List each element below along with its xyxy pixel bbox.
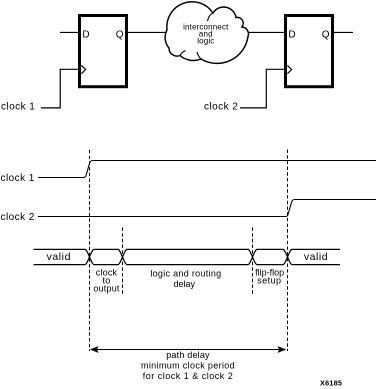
svg-text:delay: delay xyxy=(174,279,196,289)
svg-text:Q: Q xyxy=(116,29,124,40)
svg-text:valid: valid xyxy=(304,251,328,263)
svg-text:Q: Q xyxy=(322,29,330,40)
svg-text:valid: valid xyxy=(47,251,71,263)
svg-text:setup: setup xyxy=(257,276,281,286)
svg-text:clock 2: clock 2 xyxy=(1,212,35,223)
svg-text:output: output xyxy=(93,283,120,293)
svg-text:D: D xyxy=(288,29,295,40)
svg-text:for clock 1 & clock 2: for clock 1 & clock 2 xyxy=(143,371,234,381)
svg-text:minimum clock period: minimum clock period xyxy=(141,361,235,371)
svg-text:path delay: path delay xyxy=(166,350,210,360)
svg-text:clock 1: clock 1 xyxy=(1,173,35,184)
svg-text:logic and routing: logic and routing xyxy=(150,268,221,278)
svg-text:logic: logic xyxy=(197,36,214,45)
svg-text:clock 2: clock 2 xyxy=(204,101,238,112)
svg-text:clock 1: clock 1 xyxy=(1,101,35,112)
svg-text:X6185: X6185 xyxy=(320,379,342,388)
svg-text:D: D xyxy=(82,29,89,40)
